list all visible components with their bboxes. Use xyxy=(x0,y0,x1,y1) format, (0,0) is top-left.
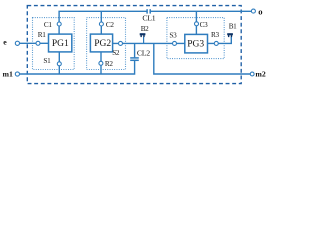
svg-text:S3: S3 xyxy=(169,32,177,40)
terminal m2 circle xyxy=(250,72,254,76)
wire: C3 stub from top bus to PG3 xyxy=(195,11,197,35)
block PG3 xyxy=(185,34,208,53)
svg-text:R2: R2 xyxy=(105,60,113,68)
symbol B1 (bar with two legs) xyxy=(227,33,233,37)
svg-text:C2: C2 xyxy=(106,21,114,29)
port circle S3 xyxy=(173,41,177,45)
svg-text:B1: B1 xyxy=(229,22,237,30)
block PG1 xyxy=(49,34,72,52)
port circle R2 xyxy=(99,61,103,65)
port circle S2 xyxy=(119,41,123,45)
svg-text:CL1: CL1 xyxy=(142,13,155,22)
wire: S1 stub from PG1 bottom to bottom bus xyxy=(58,52,60,74)
wire: top bus right part after CL1 to o terminal xyxy=(150,10,251,12)
port circle C1 xyxy=(57,22,61,26)
svg-text:e: e xyxy=(3,38,7,47)
terminal o circle xyxy=(251,9,255,13)
svg-text:m1: m1 xyxy=(3,70,13,79)
wire: R3 output of PG3 with turn up to B1 stub xyxy=(208,37,232,44)
wire: CL2 top plate stub up to S2 wire xyxy=(134,43,136,57)
wire: top bus from C1 stub corner to CL1 xyxy=(59,11,147,34)
terminal e circle xyxy=(15,41,19,45)
svg-text:m2: m2 xyxy=(255,70,265,79)
capacitor CL1 plates xyxy=(146,9,148,13)
dotted cell box 3 xyxy=(167,18,224,59)
port circle C3 xyxy=(195,22,199,26)
wire: S2 output of PG2 across to PG3 left port xyxy=(113,42,185,44)
wire: drop from S2 wire to bottom bus right segment to m2 xyxy=(154,43,252,74)
port circle R3 xyxy=(214,41,218,45)
svg-text:R1: R1 xyxy=(38,31,46,39)
wire: R2 stub from PG2 bottom to bottom bus xyxy=(100,52,102,74)
wire: C2 stub from top bus to PG2 xyxy=(100,11,102,34)
wire: B2 stub up from S2 wire xyxy=(143,37,145,44)
svg-text:PG1: PG1 xyxy=(52,39,69,49)
block PG2 xyxy=(90,34,112,52)
svg-text:B2: B2 xyxy=(141,25,149,33)
svg-text:S2: S2 xyxy=(112,49,120,57)
port circle C2 xyxy=(99,22,103,26)
svg-text:S1: S1 xyxy=(43,57,51,65)
symbol B2 (bar with two legs) xyxy=(140,33,146,37)
terminal m1 circle xyxy=(15,72,19,76)
wire: e input to PG1 xyxy=(19,42,48,44)
port circle R1 xyxy=(36,41,40,45)
svg-text:CL2: CL2 xyxy=(137,49,150,58)
svg-text:PG2: PG2 xyxy=(94,39,111,49)
svg-text:o: o xyxy=(258,7,262,17)
svg-text:PG3: PG3 xyxy=(187,39,204,49)
capacitor CL2 plates xyxy=(130,59,139,61)
dotted cell box 2 xyxy=(87,18,126,70)
port circle S1 xyxy=(57,62,61,66)
svg-text:C3: C3 xyxy=(200,21,208,29)
dotted cell box 1 xyxy=(33,18,75,70)
svg-text:C1: C1 xyxy=(44,21,52,29)
wire: m1 bottom bus left segment turning up into CL2 xyxy=(19,61,134,74)
svg-text:R3: R3 xyxy=(211,31,219,39)
outer dashed enclosure box xyxy=(27,6,241,84)
